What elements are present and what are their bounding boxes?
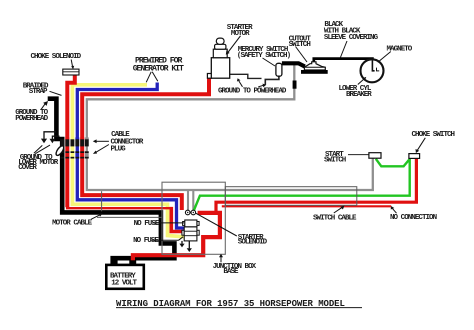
- svg-text:STRAP: STRAP: [29, 88, 48, 96]
- svg-text:MAGNETO: MAGNETO: [387, 46, 413, 54]
- svg-text:(SAFETY SWITCH): (SAFETY SWITCH): [237, 52, 291, 60]
- svg-text:NO CONNECTION: NO CONNECTION: [390, 214, 437, 222]
- svg-text:POWERHEAD: POWERHEAD: [15, 115, 48, 123]
- svg-text:SWITCH: SWITCH: [289, 41, 311, 49]
- svg-text:BASE: BASE: [223, 268, 239, 276]
- svg-text:NO FUSE: NO FUSE: [134, 220, 160, 228]
- svg-text:NO FUSE: NO FUSE: [133, 237, 159, 245]
- svg-text:SWITCH CABLE: SWITCH CABLE: [313, 215, 357, 223]
- svg-text:SWITCH: SWITCH: [324, 156, 346, 164]
- svg-text:GENERATOR KIT: GENERATOR KIT: [133, 65, 184, 74]
- svg-text:COVER: COVER: [18, 164, 37, 172]
- svg-text:SOLENOID: SOLENOID: [238, 239, 268, 247]
- svg-text:CHOKE SWITCH: CHOKE SWITCH: [412, 131, 455, 139]
- svg-text:GROUND TO POWERHEAD: GROUND TO POWERHEAD: [218, 87, 287, 95]
- svg-text:MOTOR CABLE: MOTOR CABLE: [52, 220, 93, 228]
- svg-text:CHOKE SOLENOID: CHOKE SOLENOID: [31, 53, 82, 61]
- svg-text:MOTOR: MOTOR: [231, 30, 250, 38]
- svg-text:PLUG: PLUG: [111, 146, 127, 154]
- svg-text:SLEEVE COVERING: SLEEVE COVERING: [324, 34, 379, 42]
- svg-text:12 VOLT: 12 VOLT: [111, 279, 137, 287]
- svg-text:BREAKER: BREAKER: [346, 91, 372, 99]
